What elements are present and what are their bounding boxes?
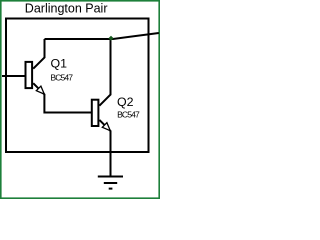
svg-text:BC547: BC547 — [117, 109, 140, 119]
svg-text:Darlington Pair: Darlington Pair — [25, 1, 108, 15]
svg-text:BC547: BC547 — [50, 73, 73, 83]
svg-text:Q2: Q2 — [117, 95, 134, 109]
svg-text:Q1: Q1 — [51, 56, 68, 70]
